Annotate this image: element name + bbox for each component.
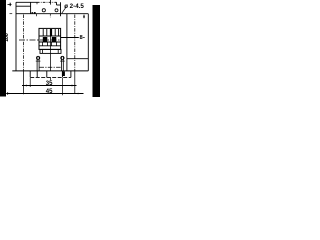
svg-text:45: 45 [46, 89, 53, 95]
svg-text:35: 35 [46, 81, 53, 87]
svg-text:ø 2-4.5: ø 2-4.5 [64, 3, 84, 10]
svg-text:100: 100 [4, 33, 10, 42]
